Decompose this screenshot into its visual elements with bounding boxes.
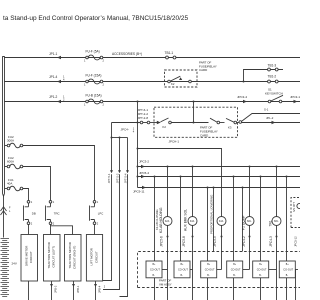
wire between contacts — [171, 122, 208, 124]
controller output box 5 — [253, 261, 269, 278]
node JP1-1 — [57, 56, 61, 59]
svg-text:2: 2 — [53, 221, 55, 225]
fuse FU2 600A — [5, 166, 8, 168]
switch S1 keyswitch — [268, 95, 283, 102]
svg-text:CO-OUT: CO-OUT — [283, 268, 293, 271]
wire column coil3 lower — [221, 226, 223, 270]
svg-text:PROPORTIONAL LOWERING: PROPORTIONAL LOWERING — [209, 194, 213, 234]
wire bus JPC5-4 — [138, 176, 301, 178]
svg-text:JPC5-4: JPC5-4 — [139, 171, 149, 175]
svg-text:JPB-4: JPB-4 — [98, 285, 102, 293]
box drive motor circuit — [21, 235, 38, 282]
wire lower branch — [242, 122, 301, 124]
wire row2 — [4, 81, 300, 83]
wire JPT-5-2 — [119, 138, 121, 171]
node connector pair — [140, 121, 150, 124]
node TB1-2 — [268, 80, 279, 83]
svg-text:K3: K3 — [228, 126, 232, 130]
wire row3 drop to relay card — [193, 102, 195, 123]
wire DB to box — [28, 225, 30, 235]
svg-text:CO-OUT: CO-OUT — [205, 268, 215, 271]
svg-text:K2: K2 — [163, 125, 167, 129]
wire JPT-5-4 — [127, 138, 129, 171]
fuse FU-F (15A) — [86, 79, 103, 84]
svg-text:AUX BRK SOL: AUX BRK SOL — [184, 209, 188, 231]
relay K3b contact — [220, 122, 225, 124]
svg-text:TB1-1: TB1-1 — [165, 51, 174, 55]
svg-text:TB1-2: TB1-2 — [268, 75, 277, 79]
wire column box5 pin — [260, 177, 262, 262]
wire column spare2 — [242, 188, 244, 252]
svg-text:DB: DB — [32, 212, 36, 216]
node JPC3-1 — [294, 100, 298, 103]
node TB1-1 — [166, 56, 176, 59]
svg-text:S-1: S-1 — [264, 108, 269, 112]
svg-text:L: L — [9, 210, 11, 213]
svg-text:CO-OUT: CO-OUT — [178, 268, 188, 271]
svg-text:2: 2 — [97, 221, 99, 225]
svg-text:JPCH-1: JPCH-1 — [169, 140, 180, 144]
wire column coil4 — [249, 167, 251, 270]
svg-text:1: 1 — [84, 58, 86, 62]
svg-text:B-: B- — [286, 275, 289, 277]
wire JPT-5-1 lower — [103, 174, 112, 280]
relay K1 contact — [161, 118, 172, 124]
svg-text:CIRCUIT: CIRCUIT — [94, 251, 98, 263]
battery 24V — [3, 196, 5, 237]
wire upper branch — [242, 114, 301, 122]
controller output box 3 — [201, 261, 217, 278]
svg-text:TR1: TR1 — [269, 220, 273, 226]
wire FU2 300A output — [23, 146, 95, 201]
svg-text:K4A: K4A — [190, 220, 195, 223]
wire FU1 output — [23, 189, 29, 201]
svg-text:2: 2 — [104, 286, 106, 289]
box traction motor circuit right — [65, 235, 82, 282]
svg-text:B-: B- — [207, 275, 210, 277]
wire JPT-5-2 lower — [103, 174, 120, 289]
svg-text:1: 1 — [31, 200, 33, 204]
svg-text:JPC9-11: JPC9-11 — [133, 190, 145, 194]
coil PROPORTIONAL LOWERING — [217, 217, 226, 226]
svg-text:K2-AB HOLDING: K2-AB HOLDING — [159, 207, 163, 233]
node JP1-2 — [57, 100, 61, 103]
svg-text:TRACTION MOTOR: TRACTION MOTOR — [68, 242, 72, 268]
wire feed column — [137, 102, 139, 188]
svg-text:JPC4-3: JPC4-3 — [269, 236, 273, 247]
controller output box 4 — [227, 261, 243, 278]
relay K2 contact in fuse/relay card — [165, 70, 198, 87]
svg-text:CIRCUIT (LEFT): CIRCUIT (LEFT) — [52, 246, 56, 268]
svg-text:K2: K2 — [171, 82, 175, 86]
wire JPCH-1 — [138, 149, 222, 217]
node K2-AB closing label — [155, 209, 159, 230]
junction dots on buses — [154, 166, 288, 189]
wire column box1 pin — [154, 177, 156, 262]
title — [3, 15, 189, 22]
svg-text:2: 2 — [31, 221, 33, 225]
wire column coil5 — [276, 167, 278, 300]
wire column right edge — [295, 270, 297, 300]
contactor LPC — [90, 201, 96, 225]
svg-text:24V: 24V — [12, 262, 17, 266]
svg-text:B-: B- — [181, 275, 184, 277]
svg-text:600A: 600A — [7, 160, 14, 164]
svg-text:1: 1 — [53, 200, 55, 204]
svg-text:1: 1 — [84, 102, 86, 106]
contactor TRC — [46, 201, 52, 225]
coil P2 DUMP — [245, 217, 254, 226]
svg-text:K4A: K4A — [219, 220, 224, 223]
svg-text:FU-F (5A): FU-F (5A) — [86, 50, 100, 54]
svg-text:2: 2 — [103, 82, 105, 86]
svg-text:JPT-5-1: JPT-5-1 — [107, 173, 111, 183]
svg-text:JPT-5-4: JPT-5-4 — [123, 173, 127, 183]
wire column box4 pin — [233, 177, 235, 262]
svg-text:JP1-4: JP1-4 — [49, 75, 58, 79]
svg-text:1: 1 — [97, 200, 99, 204]
svg-text:JPC3-2: JPC3-2 — [139, 159, 149, 163]
svg-text:2: 2 — [103, 102, 105, 106]
svg-text:DRIVE MOTOR: DRIVE MOTOR — [24, 246, 28, 266]
svg-text:JPC3-1: JPC3-1 — [290, 95, 300, 99]
svg-text:JPC5-6: JPC5-6 — [160, 236, 164, 247]
coil AUX BRK SOL — [188, 217, 197, 226]
node JPC3-4 — [243, 100, 247, 103]
node JPL-2 — [272, 121, 276, 124]
box lift motor circuit — [86, 235, 102, 282]
node TB1-3 — [268, 68, 279, 71]
wire TB1-3 branch — [244, 70, 284, 82]
switch S3 output — [237, 122, 239, 124]
svg-text:300A: 300A — [7, 139, 14, 143]
svg-text:FU-F (15A): FU-F (15A) — [86, 74, 102, 78]
svg-text:P2 DUMP: P2 DUMP — [242, 215, 246, 230]
wire JPT-5-4 lower — [120, 174, 128, 296]
svg-text:JPT-2-8: JPT-2-8 — [138, 116, 149, 120]
contactor DB — [24, 201, 30, 225]
wire TRC to boxes — [51, 225, 73, 235]
svg-text:ta Stand-up End Control Operat: ta Stand-up End Control Operator’s Manua… — [3, 15, 189, 22]
fuse FU1 40A — [5, 188, 8, 190]
wire FU2 600A output — [23, 167, 51, 201]
svg-text:JPC5-5: JPC5-5 — [213, 236, 217, 247]
wire box2 return — [51, 281, 53, 300]
coil K2-AB HOLDING — [163, 217, 172, 226]
controller output box 2 — [174, 261, 190, 278]
svg-text:TB1-3: TB1-3 — [268, 63, 277, 67]
svg-text:ACCESSORIES (B+): ACCESSORIES (B+) — [112, 52, 142, 56]
wire row3 ignition — [4, 101, 300, 103]
controller output box 6 — [279, 261, 295, 278]
node JPT labels — [138, 108, 149, 120]
svg-text:JPC4-: JPC4- — [121, 128, 129, 132]
relay K3 contact — [210, 118, 220, 124]
fuse FU2 300A — [5, 145, 8, 147]
wire box bottom pins — [155, 278, 287, 300]
VM assy dashed boundary — [138, 252, 301, 288]
wire JPT-5-1 — [111, 138, 113, 171]
svg-text:CARD: CARD — [199, 68, 207, 72]
svg-text:K2A: K2A — [165, 220, 170, 223]
svg-text:KEYSWITCH: KEYSWITCH — [265, 91, 283, 95]
svg-text:JP1-2: JP1-2 — [49, 95, 58, 99]
svg-text:JPC3-4: JPC3-4 — [237, 95, 247, 99]
svg-text:4: 4 — [133, 130, 135, 134]
wire into card — [150, 122, 158, 124]
svg-text:B-: B- — [259, 275, 262, 277]
svg-text:S/S OPT: S/S OPT — [293, 202, 296, 212]
node JP1-4 — [57, 80, 61, 83]
junction row2 — [243, 81, 245, 83]
B+ bus bar — [3, 56, 5, 193]
svg-text:JPC5-12: JPC5-12 — [294, 236, 298, 247]
fuse FU-F (5A) — [86, 55, 103, 60]
wire box4 return — [95, 281, 97, 300]
svg-text:CARD: CARD — [200, 133, 208, 137]
wire LPC to box — [94, 225, 96, 235]
svg-text:VM ASSY: VM ASSY — [159, 283, 172, 287]
wire row1 accessories — [4, 57, 300, 59]
svg-text:CIRCUIT (RIGHT): CIRCUIT (RIGHT) — [73, 246, 77, 269]
svg-text:SOL: SOL — [274, 221, 279, 223]
wire column box2 pin — [180, 177, 182, 262]
coil TR1 — [272, 217, 281, 226]
wire S2 input — [112, 122, 141, 124]
svg-text:FU-B (15A): FU-B (15A) — [86, 94, 102, 98]
svg-text:SOL: SOL — [247, 221, 252, 223]
svg-text:LPC: LPC — [98, 212, 103, 216]
svg-text:CO-OUT: CO-OUT — [257, 268, 267, 271]
svg-text:K2-AB CLOSING: K2-AB CLOSING — [155, 209, 159, 230]
wire column box6 pin — [286, 177, 288, 262]
svg-text:CIRCUIT: CIRCUIT — [29, 251, 33, 263]
svg-text:40A: 40A — [7, 182, 12, 186]
svg-text:JPB-2: JPB-2 — [54, 285, 58, 293]
node JPC5-12 label — [294, 236, 298, 247]
svg-text:CO-OUT: CO-OUT — [231, 268, 241, 271]
svg-text:TRACTION MOTOR: TRACTION MOTOR — [47, 242, 51, 268]
wire column box3 pin — [207, 188, 209, 262]
wire column coil1 — [167, 167, 169, 300]
fuse FU-B (15A) — [86, 99, 103, 104]
wire box1 return — [28, 281, 30, 300]
wire bus JPC9-11 — [138, 187, 301, 189]
svg-text:JPB-1: JPB-1 — [76, 285, 80, 293]
svg-text:TRC: TRC — [54, 212, 60, 216]
wire jumper bar — [112, 137, 128, 139]
svg-text:CO-OUT: CO-OUT — [150, 268, 160, 271]
svg-text:JPC4-2: JPC4-2 — [242, 236, 246, 247]
svg-text:JPT-5-2: JPT-5-2 — [115, 173, 119, 183]
svg-text:B-: B- — [153, 275, 156, 277]
node JPC4 drops — [111, 123, 113, 138]
svg-text:1: 1 — [84, 82, 86, 86]
wire box3 return — [73, 281, 75, 300]
svg-text:JPC5-8: JPC5-8 — [182, 236, 186, 247]
svg-text:JPL-2: JPL-2 — [266, 116, 274, 120]
controller output box 1 — [146, 261, 162, 278]
relay card box 2 — [154, 107, 238, 137]
svg-text:B-: B- — [233, 275, 236, 277]
box traction motor circuit left — [44, 235, 61, 282]
wire column coil2 — [192, 167, 194, 300]
wire bus JPC3-2 — [138, 166, 301, 168]
svg-text:JP1-1: JP1-1 — [49, 52, 58, 56]
S/S option dashed box — [291, 198, 300, 228]
wire column spare1 — [213, 188, 215, 252]
svg-text:2: 2 — [103, 58, 105, 62]
svg-text:LIFT MOTOR: LIFT MOTOR — [90, 248, 94, 265]
